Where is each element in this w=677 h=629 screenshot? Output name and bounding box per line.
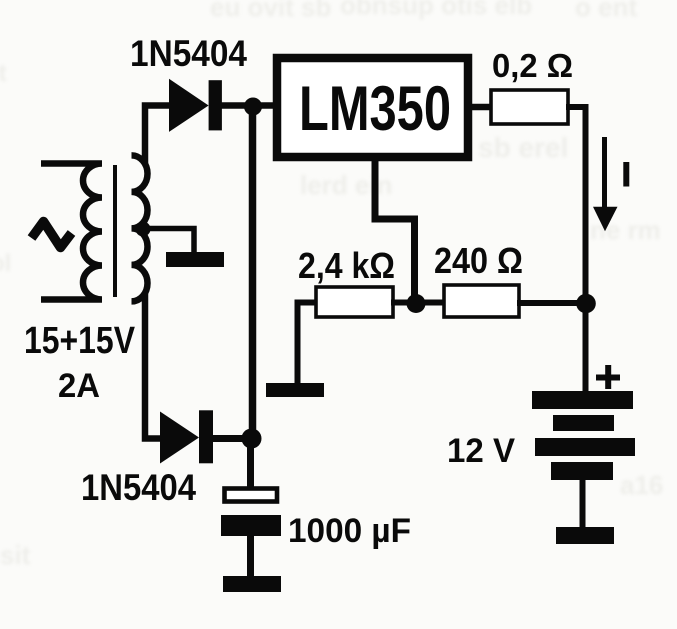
transformer T1 secondary winding	[132, 155, 148, 301]
ground battery negative terminal bar	[556, 527, 614, 544]
wire LM350 ADJ to divider node	[375, 157, 415, 298]
regulator U1 LM350	[277, 58, 468, 157]
node D2 output junction	[242, 429, 262, 449]
transformer T1 primary winding	[41, 164, 102, 300]
current arrow I	[593, 137, 618, 231]
resistor R3 body	[444, 285, 519, 317]
AC source symbol	[32, 222, 72, 248]
node D1 output junction	[244, 98, 262, 116]
capacitor C1 1000uF	[221, 489, 281, 537]
label battery plus	[596, 365, 620, 389]
wire center tap to ground	[143, 229, 194, 255]
wire R3 to battery node	[517, 300, 584, 306]
resistor R2 body	[316, 287, 393, 317]
transformer T1 core	[113, 165, 117, 297]
wire D1 cathode to LM350 input	[220, 102, 276, 109]
wire secondary bottom lead to D2 anode	[145, 293, 162, 439]
svg-text:1N5404: 1N5404	[130, 33, 247, 74]
ground divider ground bar	[266, 383, 324, 397]
ground C1 ground bar	[223, 576, 281, 592]
node divider junction	[407, 294, 426, 313]
ground center tap ground bar	[166, 252, 224, 267]
svg-text:LM350: LM350	[299, 74, 451, 144]
diode D2 1N5404	[160, 410, 213, 463]
label I	[623, 162, 629, 187]
wire junction to C1	[247, 440, 254, 488]
svg-text:2,4 kΩ: 2,4 kΩ	[298, 245, 395, 286]
wire C1 to ground	[247, 536, 254, 576]
resistor R1 body	[491, 90, 568, 124]
diode D1 1N5404	[169, 79, 222, 132]
wire LM350 output to R1	[470, 104, 493, 111]
wire R2 left lead to ground	[298, 303, 319, 386]
wire D2 cathode to bus junction	[212, 435, 250, 442]
wire R1 output to battery positive (right bus)	[566, 107, 586, 392]
wire secondary top lead to D1 anode	[145, 106, 171, 165]
node transformer center tap	[136, 222, 151, 237]
svg-text:1N5404: 1N5404	[81, 467, 196, 508]
wire main bus from D1 junction to D2 junction	[249, 107, 257, 438]
svg-text:1000 µF: 1000 µF	[288, 512, 411, 550]
wire divider node between R2 and R3	[391, 300, 446, 306]
svg-text:0,2 Ω: 0,2 Ω	[492, 47, 573, 84]
svg-text:240 Ω: 240 Ω	[434, 240, 523, 281]
node output sense junction	[576, 294, 596, 314]
svg-text:15+15V: 15+15V	[24, 320, 136, 362]
svg-text:12 V: 12 V	[447, 432, 515, 470]
svg-text:2A: 2A	[58, 367, 100, 405]
battery BT1 12V	[532, 391, 635, 529]
